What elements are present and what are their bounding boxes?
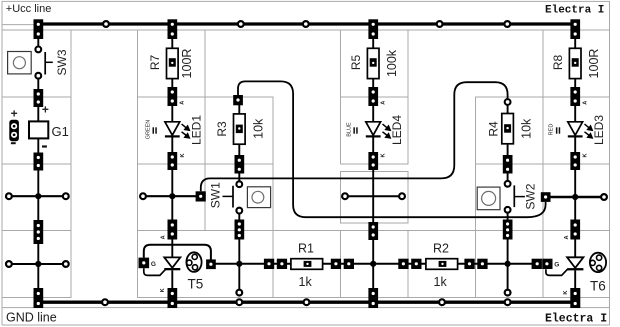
wire SW1 pad curve to R4 top <box>201 82 508 191</box>
wire pad to R5 <box>372 39 374 48</box>
pad R3 bottom <box>235 155 245 174</box>
switch SW2 <box>505 181 538 213</box>
node junction middle rail / LED1 chain <box>169 193 175 199</box>
wire pad to T5 <box>171 240 173 258</box>
thyristor T5 <box>139 245 216 292</box>
wire LED1 chain middle rail to pad <box>171 196 173 220</box>
svg-text:R4: R4 <box>487 121 501 137</box>
resistor R7 100R <box>148 48 194 78</box>
battery terminal block <box>9 106 19 144</box>
pads R1 to LED4 pair <box>331 259 354 269</box>
battery G1 <box>29 121 69 139</box>
svg-text:BLUE: BLUE <box>347 122 353 137</box>
wire R3 top curve to SW2 pad <box>238 81 546 217</box>
wire G1 chain to middle rail <box>37 171 39 197</box>
wire SW3 to pad <box>37 79 39 90</box>
pad T6 anode <box>570 220 580 240</box>
svg-text:G: G <box>151 261 156 268</box>
svg-text:A: A <box>583 101 589 105</box>
module boxes row1 <box>2 97 71 164</box>
wire SW2 chain to gate bus <box>507 240 509 264</box>
svg-text:R8: R8 <box>551 55 565 71</box>
pad LED3 anode <box>570 87 580 106</box>
wire G1 to pad <box>37 138 39 153</box>
LED LED4 (blue) <box>347 115 405 145</box>
wire jumper middle <box>342 193 405 199</box>
wire SW2 chain below bus <box>507 264 509 290</box>
pads R2 to SW2 chain pair <box>464 259 487 269</box>
svg-text:+: + <box>11 106 18 120</box>
svg-text:A: A <box>160 235 166 239</box>
node terminal SW2 chain end <box>505 290 511 296</box>
svg-text:R3: R3 <box>215 121 229 137</box>
svg-text:A: A <box>381 101 387 105</box>
pushbutton of SW2 <box>477 187 500 210</box>
resistor R3 10k <box>215 114 265 144</box>
svg-text:100R: 100R <box>587 49 601 79</box>
wire lower left segment <box>6 261 69 267</box>
resistor R8 100R <box>551 48 601 78</box>
pad LED4 anode <box>368 87 378 106</box>
pad LED4 chain GND <box>368 288 378 308</box>
pad R7 top <box>168 19 178 39</box>
svg-text:100k: 100k <box>385 49 399 77</box>
pad R3 top <box>233 95 243 105</box>
pad SW2 bottom <box>503 220 513 240</box>
node terminal on GND rail x239 <box>236 299 242 305</box>
wire LED4 to pad <box>372 138 374 153</box>
switch SW1 <box>208 181 242 213</box>
pad middle rail end (SW1 left) <box>196 191 206 201</box>
svg-text:+: + <box>42 103 49 117</box>
pads LED4 to R2 pair <box>398 259 421 269</box>
wire R3 to pad <box>238 144 240 155</box>
wire T6 chain middle rail to pad <box>574 197 576 220</box>
svg-text:SW2: SW2 <box>524 183 538 209</box>
wire SW2 to pad <box>507 213 509 220</box>
node terminal on GND rail x442 <box>439 299 445 305</box>
svg-text:K: K <box>583 153 589 157</box>
svg-text:LED1: LED1 <box>189 115 203 145</box>
wire G1 chain to GND <box>37 264 39 290</box>
node terminal on +Ucc rail x306 <box>303 21 309 27</box>
svg-text:100R: 100R <box>180 49 194 79</box>
svg-text:T5: T5 <box>188 277 204 292</box>
label - (G1 bottom) <box>42 145 47 147</box>
wire LED3 chain to middle rail <box>574 170 576 197</box>
svg-text:10k: 10k <box>520 118 534 139</box>
pad G1 chain row2 <box>34 220 44 244</box>
wire R7 to pad <box>171 79 173 88</box>
pad SW2 right <box>541 192 551 202</box>
svg-text:K: K <box>563 291 569 295</box>
pad G1 minus <box>34 153 44 171</box>
svg-text:GND line: GND line <box>6 310 57 324</box>
wire pad to T6 <box>574 240 576 258</box>
pad SW1 bottom <box>235 220 245 240</box>
svg-text:LED3: LED3 <box>592 115 606 145</box>
pushbutton of SW1 <box>247 187 270 208</box>
wire terminal to R4 <box>507 105 509 113</box>
pads T5 to R1 pair <box>264 259 287 269</box>
wire G1 chain middle rail to lower <box>37 196 39 264</box>
node junction gate bus / SW1 chain <box>236 261 242 267</box>
wire SW1 chain to gate bus <box>238 240 240 264</box>
wire pad to R7 <box>171 39 173 48</box>
wire gate bus (T5 to T6) <box>216 263 533 265</box>
module boxes row0 <box>2 30 71 97</box>
node junction gate bus / SW2 chain <box>505 261 511 267</box>
svg-text:1k: 1k <box>299 275 313 289</box>
thyristor T6 <box>546 253 606 294</box>
wire LED1 to pad <box>171 138 173 153</box>
wire pad to LED1 <box>171 106 173 122</box>
node terminal SW1 chain end <box>236 290 242 296</box>
node terminal on +Ucc rail x241 <box>238 21 244 27</box>
wire T6 to pad <box>574 270 576 289</box>
resistor R5 100k <box>349 48 399 78</box>
node junction middle rail right / T6 chain <box>572 194 578 200</box>
wire LED4 chain to gate bus <box>372 240 374 289</box>
node terminal on GND rail x105 <box>102 299 108 305</box>
pad G1 chain GND <box>34 288 44 308</box>
svg-text:G: G <box>554 262 559 269</box>
resistor R2 1k <box>426 241 458 288</box>
svg-text:Electra I: Electra I <box>545 313 607 326</box>
module boxes row2 <box>2 164 71 231</box>
svg-text:K: K <box>381 153 387 157</box>
wire G1 chain vertical <box>37 39 39 47</box>
svg-text:R7: R7 <box>148 55 162 71</box>
wire GND rail <box>38 301 575 304</box>
svg-text:RED: RED <box>548 124 554 136</box>
wire R4 to pad <box>507 144 509 156</box>
svg-text:1k: 1k <box>434 275 448 289</box>
node junction middle rail / G1 chain <box>35 193 41 199</box>
wire pad to LED3 <box>574 106 576 122</box>
svg-text:SW1: SW1 <box>208 182 222 208</box>
svg-text:R5: R5 <box>349 55 363 71</box>
svg-text:T6: T6 <box>590 279 606 294</box>
pad LED4 chain row2 <box>368 222 378 240</box>
module boxes row3 <box>2 231 71 298</box>
node terminal on +Ucc rail x106 <box>103 21 109 27</box>
svg-text:G1: G1 <box>52 124 69 139</box>
wire pad to G1 <box>37 107 39 121</box>
svg-text:10k: 10k <box>251 118 265 139</box>
wire R5 to pad <box>372 79 374 88</box>
node terminal R4 top <box>505 99 511 105</box>
svg-text:LED4: LED4 <box>390 115 404 145</box>
pad T6 cathode GND <box>570 288 580 308</box>
LED LED1 (green) <box>146 115 204 145</box>
node junction lower wire / G1 chain <box>35 261 41 267</box>
svg-text:+Ucc line: +Ucc line <box>6 3 52 15</box>
wire SW1 chain below bus <box>238 264 240 290</box>
pads T6 gate pair <box>532 259 553 269</box>
wire LED3 to pad <box>574 138 576 153</box>
wire pad to LED4 <box>372 106 374 122</box>
wire LED1 chain to middle rail <box>171 170 173 196</box>
pad LED3 cathode <box>570 152 580 170</box>
wire pad to SW1 <box>238 174 240 182</box>
pad R8 top <box>570 19 580 39</box>
svg-text:GREEN: GREEN <box>146 120 152 140</box>
wire middle rail left segment B <box>140 193 201 199</box>
wire T5 to pad <box>171 270 173 289</box>
wire middle rail left segment A <box>6 193 69 199</box>
node terminal on +Ucc rail x440 <box>437 21 443 27</box>
svg-text:K: K <box>160 288 166 292</box>
pad G1 plus <box>34 89 44 107</box>
LED LED3 (red) <box>548 115 606 145</box>
wire +Ucc rail <box>38 22 575 25</box>
pad R4 bottom <box>503 155 513 174</box>
svg-text:SW3: SW3 <box>55 49 69 75</box>
svg-text:A: A <box>180 101 186 105</box>
node terminal on +Ucc rail x507 <box>504 21 510 27</box>
resistor R1 1k <box>291 241 323 288</box>
svg-text:A: A <box>564 235 570 239</box>
pushbutton of SW3 <box>8 52 32 74</box>
wire middle rail right <box>550 194 606 200</box>
wire SW1 to pad <box>238 214 240 221</box>
pad G1 top (+Ucc) <box>34 19 44 39</box>
svg-text:R1: R1 <box>298 241 314 255</box>
pad LED1 anode <box>168 87 178 106</box>
node terminal on GND rail x507 <box>505 299 511 305</box>
wire pad to R8 <box>574 39 576 48</box>
pad T5 cathode GND <box>168 288 178 308</box>
svg-text:Electra I: Electra I <box>545 5 604 17</box>
wire LED4 chain down <box>372 170 374 223</box>
pad T5 anode <box>168 220 178 240</box>
node terminal on GND rail x306 <box>304 299 310 305</box>
svg-text:R2: R2 <box>433 241 449 255</box>
svg-text:K: K <box>180 153 186 157</box>
wire pad to SW2 <box>507 174 509 182</box>
node junction gate bus / LED4 chain <box>370 261 376 267</box>
pad LED4 cathode <box>368 152 378 170</box>
wire R8 to pad <box>574 79 576 88</box>
pad R5 top <box>368 19 378 39</box>
resistor R4 10k <box>487 114 534 144</box>
switch SW3 <box>35 47 68 79</box>
wire pad to R3 <box>238 105 240 114</box>
pad LED1 cathode <box>168 152 178 170</box>
